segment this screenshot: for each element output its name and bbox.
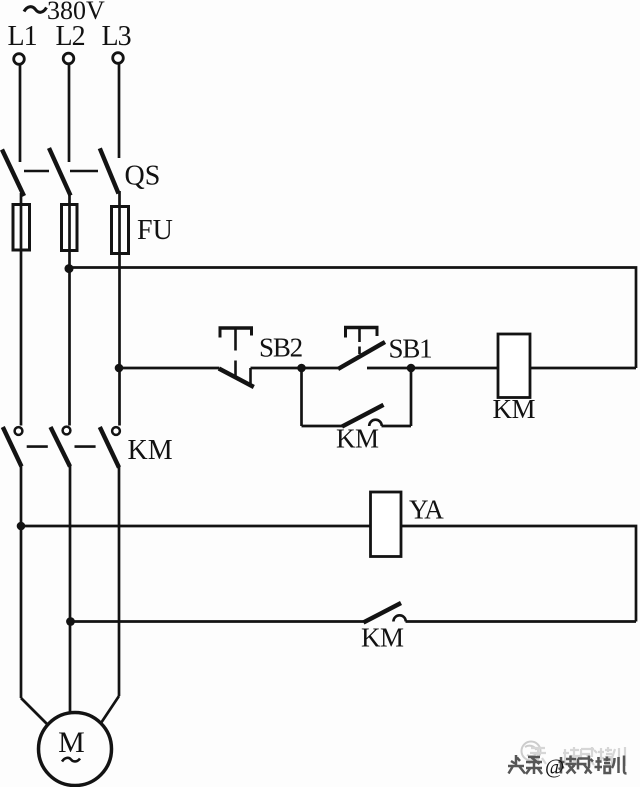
svg-text:L3: L3: [102, 21, 131, 52]
svg-text:L1: L1: [8, 21, 37, 52]
svg-text:@: @: [545, 755, 564, 779]
svg-text:SB2: SB2: [259, 333, 303, 363]
svg-text:KM: KM: [336, 424, 379, 454]
svg-text:KM: KM: [361, 623, 404, 653]
svg-text:L2: L2: [56, 21, 85, 52]
svg-text:YA: YA: [409, 495, 444, 525]
svg-text:SB1: SB1: [389, 334, 432, 364]
svg-text:QS: QS: [125, 161, 161, 192]
svg-text:KM: KM: [128, 435, 173, 466]
svg-text:FU: FU: [137, 215, 173, 246]
svg-text:M: M: [58, 726, 85, 759]
svg-text:KM: KM: [493, 394, 536, 424]
